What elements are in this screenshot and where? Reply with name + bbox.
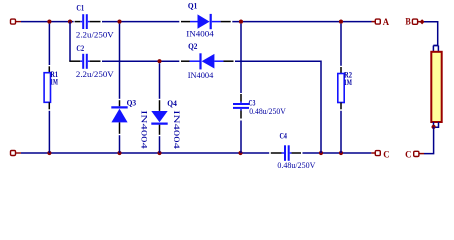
junction lamp bottom [432,125,436,129]
diode Q4 [151,63,182,153]
node C3 top [239,20,243,24]
wire top rail right [232,21,371,23]
svg-text:Q3: Q3 [127,98,137,108]
capacitor C3 [233,24,287,153]
capacitor C1 [75,3,115,40]
svg-text:0.48u/250V: 0.48u/250V [277,160,316,170]
node R1 top [47,20,51,24]
svg-text:C4: C4 [280,131,288,141]
svg-text:A: A [383,18,389,28]
svg-text:IN4004: IN4004 [140,110,150,150]
node C3 bottom [238,151,242,155]
wire B to lamp [424,22,438,46]
node R2 bottom [339,151,343,155]
fluorescent tube DS [431,46,441,128]
svg-text:IN4004: IN4004 [186,29,214,39]
svg-text:Q2: Q2 [188,41,197,51]
diode Q2 [181,41,234,80]
resistor R1 [44,24,58,153]
wire lamp to C terminal [424,127,434,154]
terminal C right [405,151,424,161]
wire top rail mid [102,21,179,23]
wire top rail left [21,21,74,23]
svg-text:IN4004: IN4004 [188,70,214,80]
terminal top-left [11,19,22,24]
node Q4 top [157,59,161,63]
resistor R2 [338,24,352,153]
svg-text:C: C [383,151,390,161]
node row2 drop [319,151,323,155]
svg-text:IN4004: IN4004 [172,110,182,150]
node R1 bottom [47,151,51,155]
svg-text:2.2u/250V: 2.2u/250V [76,69,115,79]
svg-text:Q1: Q1 [188,0,197,10]
terminal C left [371,151,389,161]
svg-text:1M: 1M [344,77,352,87]
capacitor C4 [271,131,316,170]
wire bottom rail right [303,152,372,154]
terminal bottom-left [11,151,22,156]
diode Q1 [181,0,231,38]
svg-text:B: B [405,18,411,28]
diode Q3 [111,24,149,153]
svg-text:1M: 1M [50,76,58,86]
node R2 top [339,20,343,24]
svg-text:0.48u/250V: 0.48u/250V [249,106,286,116]
svg-text:C1: C1 [76,3,84,13]
svg-text:C2: C2 [76,43,84,53]
wire row2 mid [102,60,179,62]
wire row2 right + drop [235,61,321,153]
node Q3 bottom [117,151,121,155]
wire bottom rail left [21,152,269,154]
svg-text:Q4: Q4 [167,98,177,108]
svg-text:2.2u/250V: 2.2u/250V [76,29,115,39]
svg-text:C: C [405,151,412,161]
wire C2 branch vertical [69,22,71,62]
terminal A [372,18,390,28]
terminal B [405,18,424,28]
node C2 branch [68,20,72,24]
node Q3 top [117,20,121,24]
node Q4 bottom [157,151,161,155]
capacitor C2 [69,43,114,79]
